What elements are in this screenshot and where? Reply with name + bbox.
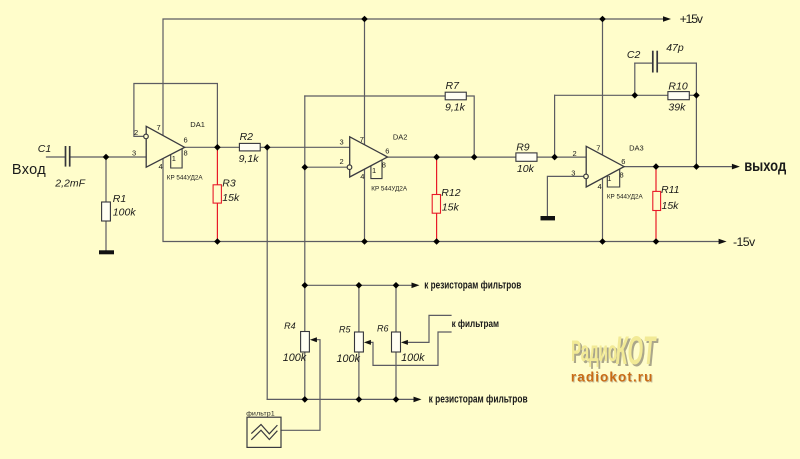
svg-text:3: 3 (132, 149, 136, 158)
svg-text:R5: R5 (339, 324, 351, 334)
svg-text:4: 4 (598, 182, 602, 191)
svg-text:КОТ: КОТ (616, 327, 657, 373)
svg-text:3: 3 (340, 137, 344, 146)
svg-text:DA3: DA3 (629, 144, 644, 153)
svg-text:39k: 39k (668, 102, 686, 114)
svg-text:R2: R2 (240, 131, 254, 143)
svg-text:9,1k: 9,1k (239, 153, 260, 165)
svg-text:КР 544УД2А: КР 544УД2А (167, 174, 204, 181)
svg-text:3: 3 (571, 169, 575, 178)
svg-text:Вход: Вход (12, 162, 46, 178)
svg-text:100k: 100k (401, 352, 425, 364)
svg-text:6: 6 (385, 146, 389, 155)
svg-text:7: 7 (157, 123, 161, 132)
svg-text:6: 6 (184, 136, 188, 145)
svg-text:4: 4 (360, 172, 364, 181)
svg-text:DA2: DA2 (393, 133, 408, 142)
svg-text:7: 7 (596, 144, 600, 153)
svg-text:8: 8 (184, 148, 188, 157)
svg-text:C1: C1 (38, 143, 51, 155)
svg-text:R4: R4 (284, 321, 296, 331)
svg-text:15k: 15k (222, 192, 240, 204)
svg-text:1: 1 (372, 166, 376, 175)
svg-text:100k: 100k (283, 352, 307, 364)
svg-text:2: 2 (573, 149, 577, 158)
svg-text:КР 544УД2А: КР 544УД2А (371, 185, 408, 192)
svg-text:КР 544УД2А: КР 544УД2А (607, 193, 644, 200)
svg-text:к фильтрам: к фильтрам (452, 318, 499, 330)
svg-text:-15v: -15v (733, 235, 756, 249)
svg-text:47p: 47p (666, 42, 684, 54)
svg-text:к резисторам фильтров: к резисторам фильтров (424, 280, 521, 292)
svg-text:выход: выход (744, 158, 786, 175)
svg-text:R10: R10 (668, 81, 687, 93)
svg-text:4: 4 (159, 162, 163, 171)
svg-text:R11: R11 (661, 184, 679, 196)
svg-text:R9: R9 (516, 141, 530, 153)
svg-text:R3: R3 (222, 177, 236, 189)
svg-text:7: 7 (360, 135, 364, 144)
svg-text:DA1: DA1 (190, 120, 205, 129)
svg-text:10k: 10k (517, 163, 535, 175)
svg-text:C2: C2 (627, 49, 641, 61)
svg-text:R7: R7 (446, 80, 461, 92)
svg-text:Радио: Радио (571, 336, 617, 369)
svg-text:+15v: +15v (680, 12, 704, 26)
svg-text:2: 2 (134, 128, 138, 137)
svg-text:radiokot.ru: radiokot.ru (571, 370, 654, 385)
svg-text:к резисторам фильтров: к резисторам фильтров (429, 394, 528, 406)
svg-text:1: 1 (172, 154, 176, 163)
svg-text:2,2mF: 2,2mF (54, 178, 85, 190)
svg-text:фильтр1: фильтр1 (246, 410, 275, 417)
svg-text:R1: R1 (113, 193, 126, 205)
svg-text:15k: 15k (662, 200, 680, 212)
svg-text:8: 8 (620, 170, 624, 179)
svg-text:R6: R6 (377, 324, 389, 334)
svg-text:100k: 100k (337, 353, 361, 365)
svg-text:2: 2 (340, 157, 344, 166)
svg-text:8: 8 (382, 160, 386, 169)
svg-text:6: 6 (621, 157, 625, 166)
svg-text:100k: 100k (113, 207, 137, 219)
svg-text:15k: 15k (442, 201, 460, 213)
svg-text:1: 1 (607, 174, 611, 183)
svg-text:R12: R12 (441, 187, 460, 199)
svg-text:9,1k: 9,1k (445, 102, 466, 114)
